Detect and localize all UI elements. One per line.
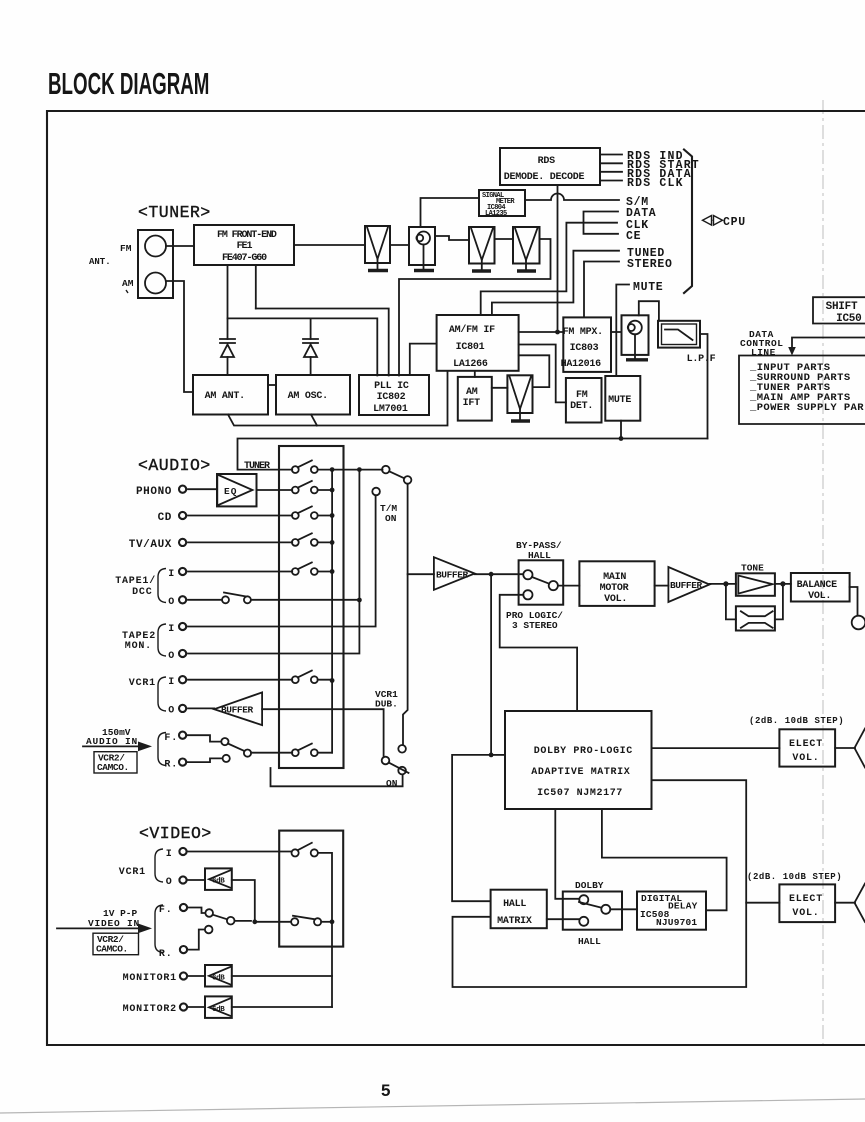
amp EQ <box>217 474 257 506</box>
ceramic filter CF2 <box>469 227 495 270</box>
input selector matrix box <box>279 446 344 768</box>
svg-text:BALANCE: BALANCE <box>797 580 838 591</box>
node video input join <box>252 919 257 924</box>
wire TV/AUX row to bus <box>318 541 332 543</box>
wire switch to MAIN MOTOR VOL <box>558 585 580 587</box>
svg-text:IFT: IFT <box>463 398 481 409</box>
wire TAPE1 I to selector <box>188 571 292 573</box>
svg-text:FM: FM <box>120 243 132 254</box>
wire video row2 to bus <box>321 921 332 923</box>
svg-text:DELAY: DELAY <box>668 901 698 912</box>
svg-text:TONE: TONE <box>741 563 764 574</box>
svg-text:3 STEREO: 3 STEREO <box>512 620 558 631</box>
block AM OSC. <box>276 375 350 415</box>
svg-text:MUTE: MUTE <box>633 281 663 294</box>
wire CF3 down to PLL IC <box>399 239 551 376</box>
svg-text:MON.: MON. <box>125 641 152 652</box>
svg-text:VOL.: VOL. <box>604 594 627 605</box>
terminal MONITOR1 <box>180 972 187 979</box>
wire BUFFER out <box>475 573 523 575</box>
svg-text:ANT.: ANT. <box>89 257 111 267</box>
speck under AM <box>126 290 128 293</box>
block ELECT VOL. (front) <box>779 729 835 766</box>
wire TAPE2 I to T/M switch <box>188 495 376 626</box>
node MUTE on audio rail <box>619 436 624 441</box>
CPU bracket <box>684 150 692 294</box>
wire buffer2 to TONE <box>710 583 736 585</box>
brace TAPE2 <box>158 624 166 656</box>
svg-text:ON: ON <box>385 513 397 524</box>
varactor D2 <box>303 339 318 375</box>
selector switch PHONO row <box>292 481 318 494</box>
wire CD to selector <box>188 515 292 517</box>
svg-text:IC801: IC801 <box>456 342 485 353</box>
svg-text:BUFFER: BUFFER <box>221 705 254 716</box>
parts list box <box>739 356 865 425</box>
svg-text:ELECT: ELECT <box>789 739 823 750</box>
wire F to F/R switch <box>188 735 221 741</box>
terminal VCR1 I video <box>179 848 186 855</box>
svg-text:I: I <box>166 849 173 860</box>
svg-text:MAIN: MAIN <box>603 572 626 583</box>
wire PHONO to EQ <box>188 488 217 490</box>
wire surround to ELECT VOL 2 <box>746 902 779 904</box>
wire TV/AUX to selector <box>188 541 292 543</box>
svg-text:MUTE: MUTE <box>608 395 631 406</box>
wire CF1 to Q1 <box>390 244 409 246</box>
svg-text:IC50: IC50 <box>836 313 861 325</box>
svg-text:IC507 NJM2177: IC507 NJM2177 <box>537 788 623 799</box>
amp 6dB (MONITOR2) <box>205 996 232 1018</box>
amp BUFFER (main) <box>434 557 475 590</box>
selector switch TUNER row <box>292 461 318 474</box>
amp BUFFER (post volume) <box>668 567 709 602</box>
wire TAPE2 O to record bus <box>188 600 359 654</box>
wire AM ANT / AM OSC bottoms to IC801 <box>228 371 448 426</box>
terminal main out <box>852 616 865 630</box>
block IC804 SIGNAL METER LA1235 <box>479 190 525 218</box>
block VCR2/CAMCO. (audio) <box>94 752 137 773</box>
wire AM jack to AM ANT block <box>166 281 193 392</box>
wire DOLBY surround out <box>453 780 747 987</box>
svg-text:VCR1: VCR1 <box>119 867 146 878</box>
switch BY-PASS/HALL <box>519 560 564 604</box>
record bus vertical <box>358 470 360 600</box>
wire RDS DATA <box>600 171 622 173</box>
switch T/M <box>372 466 411 496</box>
wire VCR1 O to 6dB amp <box>188 879 205 881</box>
selector switch video row2 <box>291 916 321 926</box>
block MAIN MOTOR VOL. <box>579 561 654 606</box>
wire ELECT VOL surround to amp <box>835 902 855 904</box>
switch F/R (video) <box>205 909 235 933</box>
svg-text:FM MPX.: FM MPX. <box>563 327 603 338</box>
node junction at FM MPX input <box>555 330 560 335</box>
wire CD row to bus <box>318 515 332 517</box>
terminal VCR1 O <box>179 705 186 712</box>
wire IC801 to FM DET <box>519 345 566 403</box>
wire dub switch return to selector <box>271 768 403 786</box>
node CD row bus <box>330 513 335 518</box>
block SHIFT IC50x (clipped) <box>813 297 865 325</box>
ground (Q2) <box>626 358 648 361</box>
wire CF2 to CF3 <box>495 238 514 240</box>
svg-text:O: O <box>166 877 173 888</box>
wire RDS box bottom to MPX node <box>557 185 559 332</box>
svg-text:BUFFER: BUFFER <box>436 570 469 581</box>
svg-text:MONITOR1: MONITOR1 <box>123 973 177 984</box>
svg-text:CAMCO.: CAMCO. <box>97 762 129 773</box>
node TUNER row bus <box>330 467 335 472</box>
wire S/M with hop over RDS vertical <box>525 194 619 201</box>
svg-text:R.: R. <box>159 949 173 960</box>
wire TAPE1 rec switch to record bus <box>251 599 359 601</box>
wire VCR1 O to rec buffer <box>188 707 214 709</box>
svg-text:LA1266: LA1266 <box>453 359 488 370</box>
svg-text:DOLBY PRO-LOGIC: DOLBY PRO-LOGIC <box>534 746 633 757</box>
wire switch to DIGITAL DELAY <box>610 908 637 910</box>
svg-text:SHIFT: SHIFT <box>826 301 858 313</box>
block AM ANT. <box>193 375 268 415</box>
svg-text:BLOCK DIAGRAM: BLOCK DIAGRAM <box>48 67 209 101</box>
ground (CF2) <box>472 269 491 272</box>
wire TUNED from IC801 <box>492 251 619 315</box>
wire MONITOR1 to 6dB <box>189 975 205 977</box>
wire Q1 to CF2 <box>435 236 469 240</box>
transistor Q2 MPX buffer <box>622 315 649 359</box>
node TV/AUX row bus <box>330 540 335 545</box>
CPU bidirectional arrow symbol <box>703 216 712 226</box>
svg-text:FM: FM <box>576 390 588 401</box>
amp 6dB (VCR1 O) <box>205 868 232 890</box>
terminal VCR1 O video <box>179 876 186 883</box>
terminal MONITOR2 <box>180 1003 187 1010</box>
svg-text:BUFFER: BUFFER <box>670 580 703 591</box>
attenuator (tone defeat) <box>736 606 775 630</box>
svg-text:PHONO: PHONO <box>136 486 172 498</box>
wire to BUFFER input <box>408 573 434 575</box>
wire RDS START <box>600 162 622 164</box>
svg-text:MATRIX: MATRIX <box>497 916 532 927</box>
wire AM ANT to AM OSC <box>268 384 276 386</box>
wire Q1 top to signal meter <box>421 198 480 227</box>
terminal TAPE2 I <box>179 623 186 630</box>
svg-text:O: O <box>168 706 175 717</box>
svg-text:AM ANT.: AM ANT. <box>205 391 245 402</box>
varactor D1 <box>220 339 235 375</box>
block AM IFT <box>458 377 492 421</box>
svg-text:AM: AM <box>122 278 134 289</box>
svg-text:<VIDEO>: <VIDEO> <box>139 824 212 843</box>
svg-text:AM: AM <box>466 387 478 398</box>
selector switch TAPE1 I row <box>292 562 318 574</box>
selector switch CD row <box>292 506 318 518</box>
svg-text:I: I <box>168 677 175 688</box>
svg-text:TAPE1/: TAPE1/ <box>115 575 156 587</box>
svg-text:(2dB. 10dB STEP): (2dB. 10dB STEP) <box>749 716 844 726</box>
wire node to DOLBY box <box>491 754 505 756</box>
terminal TAPE1 I <box>179 568 186 575</box>
svg-text:VIDEO IN: VIDEO IN <box>88 918 140 929</box>
svg-text:HALL: HALL <box>503 899 526 910</box>
svg-text:PLL IC: PLL IC <box>374 381 409 392</box>
amp surround (clipped) <box>855 884 865 923</box>
terminal R video <box>180 946 187 953</box>
wire tuning rail B to PLL <box>228 318 378 375</box>
wire HALL MATRIX to switch <box>547 918 580 920</box>
wire MONITOR2 to 6dB <box>189 1006 205 1008</box>
block IC508 DIGITAL DELAY NJU9701 <box>637 892 706 930</box>
selection bus vertical <box>331 470 333 753</box>
wire node left and down to HALL MATRIX <box>452 755 491 901</box>
ground (CF4) <box>511 419 530 422</box>
antenna terminal box <box>138 230 173 298</box>
wire data control with arrow <box>792 338 865 349</box>
svg-text:6dB: 6dB <box>212 975 225 983</box>
block ELECT VOL. (surround) <box>779 884 835 922</box>
amp 6dB (MONITOR1) <box>205 965 232 987</box>
wire audio rail from tuner to input selector <box>238 439 708 470</box>
block TONE amp <box>736 573 775 596</box>
node DOLBY input <box>489 753 494 758</box>
svg-text:RDS: RDS <box>538 156 556 167</box>
svg-text:DOLBY: DOLBY <box>575 880 604 891</box>
ground (CF1) <box>368 269 388 272</box>
svg-text:LA1235: LA1235 <box>485 210 507 218</box>
svg-text:DET.: DET. <box>570 401 593 412</box>
wire VCR1 I to selector <box>188 851 291 853</box>
wire F to switch <box>189 908 205 914</box>
brace F/R audio <box>158 733 166 766</box>
wire ELECT VOL front to amp <box>835 747 855 749</box>
AM antenna jack <box>145 273 166 294</box>
svg-text:HALL: HALL <box>578 936 601 947</box>
wire switch to video node <box>235 920 252 922</box>
selector switch TV/AUX row <box>292 533 318 546</box>
brace VCR1 video <box>155 849 163 882</box>
svg-text:5: 5 <box>381 1081 390 1100</box>
wire F/R switch to selector <box>251 752 292 754</box>
wire T/M switch to main buffer and dub bus <box>403 484 408 745</box>
wire rec buffer to dub switch <box>262 709 384 756</box>
transistor Q1 IF amp <box>409 227 435 269</box>
svg-text:<AUDIO>: <AUDIO> <box>138 456 211 475</box>
svg-text:RDS CLK: RDS CLK <box>627 177 684 190</box>
svg-text:VOL.: VOL. <box>808 591 831 602</box>
terminal F video <box>180 904 187 911</box>
wire PLL top to IC801 left <box>410 344 437 375</box>
selector switch video row1 <box>292 843 318 857</box>
wire FM MPX to Q2 <box>611 331 622 333</box>
svg-text:CPU: CPU <box>723 216 746 229</box>
wire R to F/R switch <box>188 758 223 762</box>
svg-text:CAMCO.: CAMCO. <box>96 944 128 955</box>
svg-text:CLK: CLK <box>626 219 649 232</box>
selector switch CAMCO row <box>292 744 318 757</box>
wire PRO LOGIC tap to DOLBY matrix <box>500 595 577 711</box>
amp rec BUFFER (VCR1) <box>214 692 262 725</box>
wire PHONO row to bus <box>318 489 332 491</box>
switch TAPE1 rec <box>222 593 251 604</box>
svg-text:VOL.: VOL. <box>792 753 819 764</box>
svg-text:(2dB. 10dB STEP): (2dB. 10dB STEP) <box>747 872 842 882</box>
block VCR2/CAMCO. (video) <box>93 933 139 955</box>
svg-text:FE407-G60: FE407-G60 <box>222 253 267 264</box>
wire AM OSC bottom jog <box>311 415 317 426</box>
ground (CF3) <box>517 269 536 272</box>
block FE1 FM FRONT-END <box>194 225 294 265</box>
svg-text:CD: CD <box>158 512 172 524</box>
svg-text:TV/AUX: TV/AUX <box>129 539 172 551</box>
svg-text:LM7001: LM7001 <box>373 404 408 415</box>
node record bus at TUNER row <box>357 467 362 472</box>
wire MONITOR1 row to bus <box>232 975 332 977</box>
video selector box <box>279 831 343 947</box>
selector switch VCR1 I row <box>292 671 318 684</box>
node TONE input <box>723 581 728 586</box>
svg-text:TUNER: TUNER <box>244 461 270 472</box>
wire STEREO from FM MPX <box>584 262 619 318</box>
ceramic filter CF4 <box>507 375 532 420</box>
wire IC801 bottom to AM IFT top <box>474 371 476 377</box>
wire TAPE1 I row to bus <box>318 571 332 573</box>
svg-text:VCR1: VCR1 <box>129 678 156 689</box>
svg-text:STEREO: STEREO <box>627 258 673 271</box>
node main signal <box>489 572 494 577</box>
wire TAPE1 O to rec switch <box>188 599 222 601</box>
ceramic filter CF1 <box>365 226 390 269</box>
svg-text:F.: F. <box>159 905 173 916</box>
wire video row1 to bus <box>318 853 332 922</box>
switch VCR1 DUB <box>382 745 409 774</box>
terminal VCR1 I <box>179 676 186 683</box>
svg-text:I: I <box>168 569 175 580</box>
wire VCR1 row to bus <box>318 679 332 681</box>
node PHONO row bus <box>330 488 335 493</box>
svg-text:AM OSC.: AM OSC. <box>288 391 328 402</box>
wire TUNER row to T/M switch <box>318 469 383 471</box>
ground (Q1) <box>414 269 434 272</box>
terminal F (audio) <box>179 732 186 739</box>
svg-text:6dB: 6dB <box>212 878 225 886</box>
block MUTE (tuner) <box>605 376 640 421</box>
svg-text:ON: ON <box>386 778 398 789</box>
wire DOLBY bottom delay loop <box>602 809 727 910</box>
wire VCR1 I to selector <box>188 679 292 681</box>
ceramic filter CF3 <box>513 227 540 270</box>
wire attenuator out <box>775 584 783 620</box>
svg-text:O: O <box>168 651 175 662</box>
wire DATA / CE bracket <box>584 212 619 234</box>
block HALL MATRIX <box>491 890 547 929</box>
wire IC801 to ceramic filter CF4 <box>519 355 550 387</box>
svg-text:DUB.: DUB. <box>375 699 398 710</box>
wire node to selector row2 <box>255 921 291 923</box>
block IC802 PLL IC LM7001 <box>359 375 429 415</box>
wire buffer node down to DOLBY input <box>490 574 492 755</box>
svg-text:FE1: FE1 <box>237 241 253 252</box>
scan artifact: faint page-edge vertical line <box>822 100 824 1048</box>
wire EQ to selector <box>257 489 293 491</box>
terminal R (audio) <box>179 759 186 766</box>
wire CAMCO row to bus <box>318 752 332 754</box>
svg-text:FM FRONT-END: FM FRONT-END <box>217 230 277 241</box>
node TONE output <box>780 581 785 586</box>
wire 6dB to video node <box>232 880 255 921</box>
svg-text:<TUNER>: <TUNER> <box>138 203 211 222</box>
svg-text:O: O <box>168 597 175 608</box>
wire MAIN VOL to buffer2 <box>655 585 669 587</box>
amp front (clipped) <box>855 729 865 768</box>
svg-text:DEMODE. DECODE: DEMODE. DECODE <box>504 172 585 183</box>
wire FE1 bottom to tuning rail <box>255 265 257 309</box>
svg-text:MOTOR: MOTOR <box>600 583 629 594</box>
wire BALANCE out to jack <box>850 587 858 616</box>
node VCR1 row bus <box>330 678 335 683</box>
node video bus <box>330 919 335 924</box>
svg-text:AUDIO IN: AUDIO IN <box>86 736 138 747</box>
wire DOLBY front out to ELECT VOL <box>652 747 780 749</box>
brace TAPE1 <box>158 569 166 603</box>
block RDS DEMODE DECODE <box>500 148 600 185</box>
wire RDS CLK <box>600 180 622 182</box>
wire IC801 to FM MPX with node <box>519 331 564 333</box>
wire MUTE bottom to audio rail <box>620 421 622 439</box>
svg-text:F.: F. <box>164 733 178 744</box>
FM antenna jack <box>145 236 166 257</box>
svg-text:EQ: EQ <box>224 486 237 497</box>
wire DOLBY bottom to hall/dolby switch <box>555 809 579 899</box>
wire FE1 bottom to varactor D1 <box>227 265 229 339</box>
wire L.P.F out down to audio rail <box>700 334 708 439</box>
node record bus at TAPE1 O <box>357 598 362 603</box>
arrow AUDIO IN <box>83 745 140 747</box>
brace VCR1 audio <box>158 677 166 711</box>
svg-text:IC803: IC803 <box>570 343 599 354</box>
wire AM IFT to CF4 <box>492 387 508 389</box>
svg-text:L.P.F: L.P.F <box>687 354 716 365</box>
svg-text:AM/FM IF: AM/FM IF <box>449 324 495 336</box>
terminal TAPE2 O <box>179 650 186 657</box>
wire CLK down into IC801 <box>481 223 617 315</box>
terminal TV/AUX <box>179 539 186 546</box>
svg-text:R.: R. <box>164 760 178 771</box>
terminal PHONO <box>179 486 186 493</box>
wire FE1 to ceramic filter CF1 <box>294 244 365 246</box>
wire TONE out to BALANCE <box>775 583 791 585</box>
wire FM jack to FM front-end <box>166 245 194 247</box>
svg-text:MONITOR2: MONITOR2 <box>123 1004 177 1015</box>
arrow VIDEO IN <box>57 927 140 929</box>
wire R to switch <box>189 930 205 950</box>
block FM DET. <box>566 378 602 423</box>
switch DOLBY/HALL <box>563 892 622 930</box>
wire rail B to varactor D2 <box>310 318 312 339</box>
block BALANCE VOL. <box>791 573 850 602</box>
svg-text:DCC: DCC <box>132 587 152 598</box>
block IC801 AM/FM IF LA1266 <box>437 315 519 371</box>
terminal TAPE1 O <box>179 596 186 603</box>
wire Q2 top to L.P.F <box>639 301 659 321</box>
svg-text:ADAPTIVE MATRIX: ADAPTIVE MATRIX <box>531 767 630 778</box>
scan artifact: faint bottom rule <box>0 1099 865 1113</box>
block IC507 DOLBY PRO-LOGIC ADAPTIVE MATRIX NJM2177 <box>505 711 652 809</box>
svg-text:IC802: IC802 <box>377 392 406 403</box>
wire RDS IND <box>600 154 622 156</box>
svg-text:I: I <box>168 624 175 635</box>
wire MUTE label to mute block <box>616 285 629 377</box>
switch F/R (audio) <box>221 738 251 762</box>
